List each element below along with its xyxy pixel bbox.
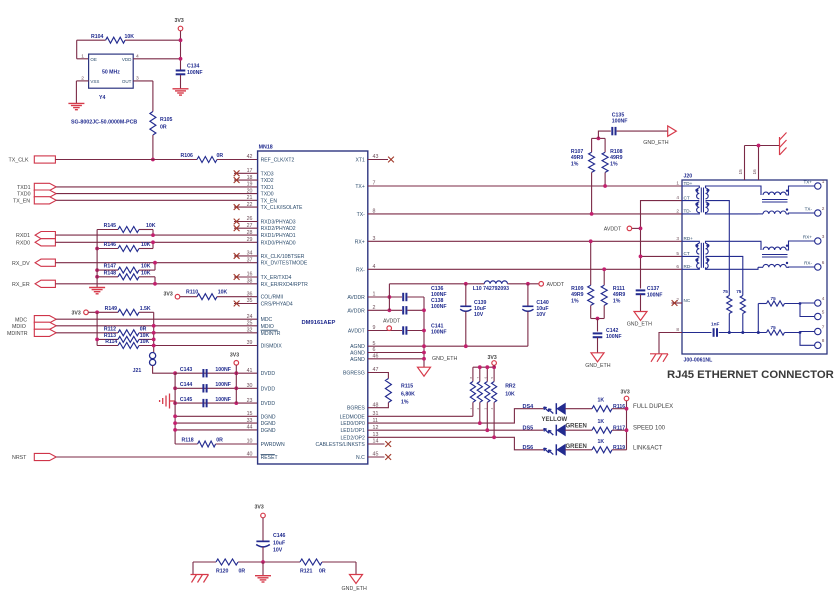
wire RXD0 (55, 241, 257, 243)
no-connect pin45 (368, 456, 385, 458)
wire LEDMODE pin31 (368, 415, 473, 417)
junction LED rail DS4 (625, 407, 629, 411)
capacitor C146 (256, 541, 269, 543)
svg-text:28: 28 (247, 230, 253, 236)
svg-text:32: 32 (247, 328, 253, 334)
svg-text:RD+: RD+ (684, 236, 694, 241)
wire RR2-3 to LED1 (486, 402, 488, 430)
wire RR2-4 to LED2 (493, 402, 495, 437)
svg-text:1%: 1% (571, 161, 579, 167)
svg-text:R148: R148 (104, 270, 117, 276)
svg-text:38: 38 (247, 279, 253, 285)
svg-text:TXD2: TXD2 (261, 178, 274, 184)
junction 3V3/R104 (179, 38, 183, 42)
resistor R105 (150, 112, 156, 136)
choke bottom winding (763, 264, 786, 267)
wire TX- line (368, 213, 682, 215)
ground (pulldowns) (89, 287, 105, 289)
wire DS6 to R119 (565, 449, 592, 451)
wire OUT to R105 (133, 80, 153, 82)
svg-text:C134: C134 (187, 64, 200, 70)
junction res3 branch (799, 302, 802, 305)
svg-text:RJ45 ETHERNET CONNECTOR: RJ45 ETHERNET CONNECTOR (667, 369, 834, 381)
svg-text:10V: 10V (273, 547, 283, 553)
wire res3 drop (757, 304, 759, 333)
svg-text:DVDD: DVDD (261, 371, 276, 377)
wire R107-R108 bar (592, 137, 606, 139)
wire cap ground rail x424 (423, 297, 425, 367)
wire LED 3V3 rail (626, 401, 628, 450)
svg-text:5: 5 (676, 251, 679, 256)
ground chassis (pin8) (650, 353, 668, 355)
wire R104 to OE pin (76, 40, 78, 59)
wire MDINTR left (56, 332, 118, 334)
svg-text:MDINTR: MDINTR (7, 331, 28, 337)
svg-text:R109: R109 (571, 286, 584, 292)
svg-text:R107: R107 (571, 149, 584, 155)
resistor 75R (TD CT) (727, 296, 732, 314)
svg-text:GND_ETH: GND_ETH (342, 586, 367, 592)
transformer TD primary (682, 186, 699, 188)
wire C134 to ground (180, 75, 182, 89)
wire 3V3 rail to VDD (180, 31, 182, 70)
wire bottom rail (193, 561, 216, 563)
ground GND_ETH (bottom) (350, 575, 363, 584)
wire AVDDR pin2 (368, 309, 402, 311)
junction CT rail/CT5 (639, 255, 643, 259)
wire TXD0 (56, 193, 257, 195)
svg-text:PWRDWN: PWRDWN (261, 442, 285, 448)
svg-text:1K: 1K (598, 419, 605, 425)
svg-text:LED1/OP1: LED1/OP1 (340, 428, 365, 434)
svg-text:DGND: DGND (261, 428, 276, 434)
svg-text:100NF: 100NF (606, 334, 622, 340)
junction C138/rail (422, 308, 426, 312)
svg-text:AGND: AGND (350, 344, 365, 350)
junction res3 drop (757, 331, 760, 334)
pin 6 RX- circle (815, 264, 821, 270)
wire CT5 line (641, 255, 683, 257)
svg-text:25: 25 (247, 321, 253, 327)
svg-text:GND_ETH: GND_ETH (627, 321, 652, 327)
svg-text:R111: R111 (613, 286, 625, 292)
junction 75R RD (741, 331, 744, 334)
wire center ground (262, 562, 264, 576)
junction C139 bottom (464, 344, 468, 348)
capacitor C136 (402, 293, 404, 301)
svg-text:AVDDT: AVDDT (383, 318, 401, 324)
svg-text:49R9: 49R9 (610, 155, 623, 161)
wire RX+ line (368, 240, 682, 242)
svg-text:MDIO: MDIO (261, 324, 274, 330)
svg-text:R149: R149 (105, 306, 118, 312)
pin 5 socket circle (815, 313, 821, 319)
svg-text:R120: R120 (216, 569, 229, 575)
transformer RD primary (682, 241, 699, 243)
wire choke top out (786, 241, 814, 250)
capacitor C141 (402, 326, 404, 334)
wire pulldown rail (96, 230, 98, 288)
capacitor C138 (402, 306, 404, 314)
svg-text:L10 742792093: L10 742792093 (473, 286, 509, 292)
capacitor C142 (597, 319, 599, 332)
junction RR2 bar (478, 365, 482, 369)
junction R146/RXD0 (151, 240, 155, 244)
svg-text:75: 75 (771, 296, 777, 301)
wire secondary top to choke (706, 186, 762, 195)
svg-text:TX_EN: TX_EN (261, 198, 278, 204)
power AVDDT (CT) (632, 227, 641, 229)
svg-text:TXD0: TXD0 (261, 192, 274, 198)
junction R113/rail153 (152, 338, 156, 342)
ground (C134) (173, 88, 189, 90)
junction AGND46/rail (422, 357, 426, 361)
svg-text:R145: R145 (104, 223, 117, 229)
op-amp U1 / PHY IC MN18 DM9161AEP body (258, 151, 368, 464)
resistor R115 (BGRES) (368, 373, 389, 379)
svg-text:REF_CLK/XT2: REF_CLK/XT2 (261, 158, 295, 164)
svg-text:50 MHz: 50 MHz (102, 70, 120, 76)
svg-text:1%: 1% (613, 298, 621, 304)
svg-text:15: 15 (247, 411, 253, 417)
svg-text:10K: 10K (141, 242, 151, 248)
capacitor C143 (175, 372, 258, 374)
junction rail175/C144 (173, 386, 177, 390)
resistor R121 (300, 559, 322, 565)
svg-text:RXD3/PHYAD3: RXD3/PHYAD3 (261, 220, 296, 226)
svg-text:3V3: 3V3 (164, 291, 173, 297)
capacitor C145 (175, 402, 258, 404)
ground GND_ETH (C137) (634, 312, 647, 321)
wire rail x153.7 (153, 312, 155, 352)
junction AGND6/rail (422, 351, 426, 355)
junction rail/R147 (95, 268, 99, 272)
wire 3V3 DVDD rail (235, 365, 237, 403)
svg-text:C146: C146 (273, 533, 286, 539)
svg-text:AVDDT: AVDDT (348, 329, 365, 335)
junction bar/C142 (596, 317, 600, 321)
svg-text:DS6: DS6 (523, 445, 534, 451)
junction pin2 rail (388, 308, 392, 312)
svg-text:10K: 10K (125, 34, 135, 40)
svg-text:10V: 10V (536, 312, 546, 318)
inductor L10 742792093 (484, 281, 507, 284)
svg-text:TXD0: TXD0 (17, 192, 31, 198)
svg-text:OE: OE (90, 57, 97, 62)
svg-text:DM9161AEP: DM9161AEP (302, 320, 336, 326)
svg-text:R108: R108 (610, 149, 623, 155)
junction R113/rail97 (95, 338, 99, 342)
svg-text:3V3: 3V3 (230, 353, 239, 359)
junction rail97/R149 (95, 310, 99, 314)
wire res4 to pins 7/8 (785, 332, 815, 333)
junction 3V3/VDD (179, 57, 183, 61)
wire R106 to pin 42 (217, 159, 258, 161)
wire pin8 to chassis (659, 333, 682, 354)
svg-text:RXD0: RXD0 (16, 240, 30, 246)
svg-text:BGRESG: BGRESG (343, 371, 365, 377)
svg-text:75: 75 (723, 289, 729, 294)
junction R111/RX- (602, 267, 606, 271)
svg-text:RX_DV/TESTMODE: RX_DV/TESTMODE (261, 261, 308, 267)
jumper J21 (150, 353, 156, 359)
resistor R107 (591, 138, 593, 152)
wire RJ45 shield pins 15/16 (744, 146, 746, 181)
wire pin8 net (682, 332, 712, 334)
wire TX+ line (368, 185, 682, 187)
svg-text:Y4: Y4 (99, 95, 105, 101)
svg-text:R106: R106 (181, 153, 194, 159)
svg-text:TX_CLK: TX_CLK (9, 157, 29, 163)
svg-text:FULL DUPLEX: FULL DUPLEX (633, 404, 673, 410)
svg-text:3V3: 3V3 (175, 18, 184, 24)
svg-text:3V3: 3V3 (72, 311, 81, 317)
junction R108/TX+ (603, 184, 607, 188)
svg-text:OUT: OUT (122, 79, 132, 84)
svg-text:AVDDR: AVDDR (347, 308, 365, 314)
svg-text:10K: 10K (146, 223, 156, 229)
svg-text:J20: J20 (684, 174, 693, 180)
pin 8 socket circle (815, 342, 821, 348)
svg-text:DISMDIX: DISMDIX (261, 344, 283, 350)
pin 3 RX+ circle (815, 238, 821, 244)
junction RR2/LED0 (478, 421, 482, 425)
capacitor C137 (636, 289, 646, 291)
wire LED0 pin11 (368, 409, 544, 423)
svg-text:100NF: 100NF (215, 367, 231, 373)
junction AGND5/rail (422, 344, 426, 348)
svg-text:RXD1/PHYAD1: RXD1/PHYAD1 (261, 233, 296, 239)
svg-text:75: 75 (736, 289, 742, 294)
svg-text:TD-: TD- (684, 209, 692, 214)
junction R105/TX_CLK (151, 158, 155, 162)
svg-text:10: 10 (247, 439, 253, 445)
capacitor C144 (175, 387, 258, 389)
ground (oscillator) (68, 102, 84, 104)
svg-text:4: 4 (676, 195, 679, 200)
svg-text:6: 6 (822, 260, 825, 265)
svg-text:TX+: TX+ (355, 184, 365, 190)
svg-text:VDD: VDD (122, 57, 132, 62)
wire C146 to rail (262, 547, 264, 562)
svg-text:TXD3: TXD3 (261, 171, 274, 177)
wire NRST (56, 456, 257, 458)
choke top winding (763, 192, 786, 195)
svg-text:3: 3 (676, 236, 679, 241)
transformer TD phase dots secondary (706, 189, 709, 192)
junction C141/rail (422, 329, 426, 333)
svg-text:R104: R104 (91, 34, 104, 40)
wire VDD to 3V3 rail (133, 58, 180, 60)
svg-text:20: 20 (247, 188, 253, 194)
wire VSS to ground (76, 80, 88, 82)
wire TXD1 (56, 186, 257, 188)
svg-text:CT: CT (684, 195, 690, 200)
svg-text:RX-: RX- (356, 267, 365, 273)
junction C144/3V3 (234, 386, 238, 390)
wire CT rail (641, 201, 683, 289)
wire LED1 pin12 (368, 429, 544, 431)
svg-text:49R9: 49R9 (571, 155, 584, 161)
svg-text:3V3: 3V3 (621, 389, 630, 395)
wire AVDDT pin9 (368, 330, 402, 332)
resistor R112 (118, 330, 139, 336)
svg-text:49R9: 49R9 (613, 292, 626, 298)
wire to chassis gnd (192, 562, 194, 575)
svg-text:TD+: TD+ (684, 181, 693, 186)
svg-text:RX+: RX+ (803, 234, 812, 239)
wire rail x97 (96, 312, 98, 345)
svg-text:CRS/PHYAD4: CRS/PHYAD4 (261, 302, 293, 308)
resistor R118 (175, 443, 198, 445)
svg-text:TX_EN: TX_EN (13, 198, 30, 204)
capacitor C139 (465, 284, 467, 306)
wire res3 to pins 4/5 (785, 302, 815, 305)
svg-text:AVDDT: AVDDT (547, 282, 565, 288)
svg-text:1%: 1% (401, 399, 409, 405)
junction res4 branch (799, 331, 802, 334)
wire RX- line (368, 268, 682, 270)
resistor R109 (590, 241, 592, 285)
wire RX_ER (55, 283, 257, 285)
svg-text:GND_ETH: GND_ETH (432, 356, 457, 362)
wire 3V3 to C146 (262, 518, 264, 541)
resistor R120 (216, 559, 238, 565)
resistor R119 (592, 447, 612, 453)
svg-text:NRST: NRST (12, 455, 27, 461)
junction C143/3V3 (234, 371, 238, 375)
wire TX_CLK line (55, 159, 197, 161)
transformer TD phase dots primary (695, 189, 698, 192)
resistor R148 (97, 276, 118, 278)
svg-text:6,80K: 6,80K (401, 392, 415, 398)
svg-text:8: 8 (822, 338, 825, 343)
svg-text:36: 36 (247, 291, 253, 297)
resistor R116 (592, 406, 612, 412)
wire choke top out (786, 186, 814, 195)
svg-text:CABLESTS/LINKSTS: CABLESTS/LINKSTS (316, 442, 366, 448)
svg-text:10V: 10V (474, 312, 484, 318)
oscillator Y4 50MHz (89, 54, 134, 88)
transformer TD core (700, 188, 702, 213)
svg-text:RX_ER/RXD4/RPTR: RX_ER/RXD4/RPTR (261, 282, 309, 288)
wire to C135 (598, 131, 610, 138)
wire R105 to TX_CLK line (152, 135, 154, 160)
svg-text:100NF: 100NF (431, 329, 447, 335)
wire C135 to GND_ETH (617, 130, 668, 132)
svg-text:J00-0061NL: J00-0061NL (684, 357, 714, 363)
svg-text:RX+: RX+ (355, 239, 365, 245)
svg-text:7: 7 (822, 324, 825, 329)
choke bottom winding (763, 211, 786, 214)
wire MDINTR right (139, 332, 258, 334)
wire AGND 6 (368, 352, 424, 354)
resistor 75R (RD CT) (740, 296, 745, 314)
wire DGND 33 (175, 422, 258, 424)
svg-text:24: 24 (247, 314, 253, 320)
svg-text:C144: C144 (180, 382, 193, 388)
svg-text:DVDD: DVDD (261, 386, 276, 392)
junction RR2/LED2 (492, 435, 496, 439)
resistor R117 (592, 427, 612, 433)
svg-text:3V3: 3V3 (255, 505, 264, 511)
svg-text:TX-: TX- (357, 212, 366, 218)
connector J20 RJ45 body (682, 180, 827, 354)
svg-text:1: 1 (822, 179, 825, 184)
svg-text:100NF: 100NF (647, 292, 663, 298)
junction R109/RX+ (589, 239, 593, 243)
svg-text:TX_ER/TXD4: TX_ER/TXD4 (261, 275, 292, 281)
svg-text:C137: C137 (647, 286, 660, 292)
svg-text:TX_CLK/ISOLATE: TX_CLK/ISOLATE (261, 205, 303, 211)
svg-text:1: 1 (81, 54, 84, 60)
svg-text:SPEED 100: SPEED 100 (633, 426, 666, 432)
svg-text:42: 42 (247, 154, 253, 160)
svg-text:RX-: RX- (804, 260, 812, 265)
choke phase dots (786, 245, 788, 247)
resistor network RR2 (473, 366, 494, 368)
svg-text:0R: 0R (140, 326, 147, 332)
svg-text:LINK&ACT: LINK&ACT (633, 445, 663, 451)
wire TX_EN (56, 199, 257, 201)
junction R107/TX- (590, 212, 594, 216)
transformer RD core (700, 243, 702, 268)
svg-text:1: 1 (676, 181, 679, 186)
wire AGND 46 (368, 358, 424, 360)
no-connect XT1 (368, 159, 388, 161)
capacitor C134 (176, 70, 186, 72)
junction rail/DGND44 (173, 428, 177, 432)
power AVDDT (rail) (539, 282, 544, 287)
svg-text:1nF: 1nF (711, 322, 719, 327)
svg-text:LEDMODE: LEDMODE (340, 414, 366, 420)
svg-text:LED0/OP0: LED0/OP0 (340, 421, 365, 427)
junction C139 top (464, 282, 468, 286)
svg-text:AGND: AGND (350, 351, 365, 357)
svg-text:75: 75 (771, 325, 777, 330)
transformer RD secondary (706, 243, 709, 254)
svg-text:10K: 10K (141, 264, 151, 270)
svg-text:DS4: DS4 (523, 404, 535, 410)
svg-text:10K: 10K (218, 290, 228, 296)
no-connect pin14 (368, 443, 385, 445)
pin 2 TX- circle (815, 210, 821, 216)
choke phase dots (786, 190, 788, 192)
wire DGND 44 (175, 429, 258, 431)
svg-text:RD-: RD- (684, 264, 693, 269)
junction 75R TD (728, 331, 731, 334)
ground chassis (bottom) (191, 574, 209, 576)
svg-text:1.5K: 1.5K (140, 306, 151, 312)
ground (C146) (255, 575, 271, 577)
resistor R147 (97, 269, 118, 271)
transformer RD phase dots primary (695, 244, 698, 247)
svg-text:BGRES: BGRES (347, 406, 365, 412)
svg-text:23: 23 (247, 398, 253, 404)
junction bottom (261, 560, 265, 564)
svg-text:16: 16 (752, 169, 757, 175)
resistor R110 (180, 296, 197, 298)
svg-text:RESET: RESET (261, 455, 278, 461)
svg-text:3V3: 3V3 (488, 355, 497, 361)
wire R116 to 3V3 (612, 408, 627, 410)
svg-text:1%: 1% (571, 298, 579, 304)
svg-text:49R9: 49R9 (571, 292, 584, 298)
svg-text:COL/RMII: COL/RMII (261, 295, 284, 301)
svg-text:GREEN: GREEN (566, 423, 587, 429)
wire secondary CT to termination (706, 256, 743, 295)
svg-text:C142: C142 (606, 328, 619, 334)
